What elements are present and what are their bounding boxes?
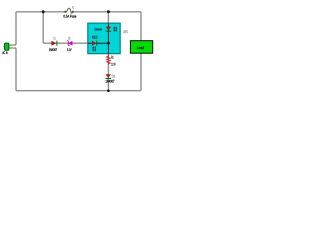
svg-text:5.1V: 5.1V	[67, 48, 72, 52]
svg-text:Load: Load	[137, 46, 144, 50]
svg-text:F1: F1	[72, 6, 74, 10]
svg-text:Green: Green	[94, 28, 102, 32]
svg-text:LED1: LED1	[123, 30, 128, 34]
svg-text:RED: RED	[92, 36, 98, 40]
svg-text:R1: R1	[111, 56, 113, 60]
svg-text:1N4007: 1N4007	[49, 48, 57, 52]
svg-text:1N4007: 1N4007	[105, 80, 114, 84]
svg-text:D1: D1	[53, 36, 55, 40]
svg-text:AC In: AC In	[2, 51, 8, 55]
svg-text:0.5A Fuse: 0.5A Fuse	[63, 14, 76, 18]
svg-text:D3: D3	[112, 74, 115, 78]
svg-text:D2: D2	[68, 36, 70, 40]
svg-text:120R: 120R	[111, 62, 116, 66]
